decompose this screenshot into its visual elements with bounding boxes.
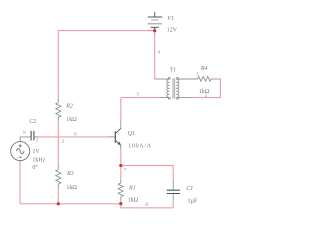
- svg-text:3: 3: [136, 92, 139, 98]
- svg-text:100A/A: 100A/A: [128, 143, 152, 149]
- svg-text:1kHz: 1kHz: [32, 157, 45, 163]
- resistor R3: [57, 165, 59, 169]
- wire bottom rail lower right part with jog: [121, 204, 173, 208]
- wire R1 bottom lead: [120, 197, 122, 201]
- svg-text:0°: 0°: [32, 164, 38, 171]
- svg-text:T1: T1: [170, 67, 176, 73]
- resistor R4: [198, 76, 212, 81]
- svg-text:2: 2: [36, 137, 39, 143]
- wire C1 bottom to lower rail: [172, 194, 174, 200]
- svg-text:4: 4: [157, 50, 160, 56]
- wire battery to transformer, net 4: [154, 31, 156, 79]
- junction battery node: [153, 29, 156, 32]
- resistor R1: [118, 183, 123, 197]
- wire left vertical divider string: [57, 30, 59, 204]
- svg-text:V1: V1: [167, 16, 174, 22]
- svg-text:Q1: Q1: [128, 131, 135, 137]
- wire left vertical from AC source to bottom rail: [19, 161, 21, 204]
- svg-text:1kΩ: 1kΩ: [128, 198, 139, 204]
- wire base net from C2 to Q1 base: [20, 137, 31, 142]
- svg-text:5: 5: [62, 139, 65, 145]
- svg-text:1µF: 1µF: [188, 198, 198, 204]
- wire net 3: transformer bottom-left to Q1 collector: [121, 97, 160, 99]
- junction R3 bottom: [57, 202, 60, 205]
- svg-text:2: 2: [205, 93, 208, 99]
- wire top horizontal net from R2 line to battery: [58, 30, 154, 32]
- svg-text:C2: C2: [29, 119, 36, 125]
- wire node 7 horizontal to C1: [121, 166, 173, 181]
- wire Q1 emitter to node 7: [120, 145, 122, 150]
- battery V1: [148, 12, 162, 31]
- svg-text:6: 6: [74, 132, 77, 138]
- capacitor C1: [167, 190, 180, 193]
- svg-text:1kΩ: 1kΩ: [66, 185, 77, 191]
- wire bottom rail left part: [20, 203, 121, 205]
- svg-text:1kΩ: 1kΩ: [66, 117, 77, 123]
- svg-text:R4: R4: [200, 65, 208, 72]
- resistor R2: [57, 99, 59, 103]
- svg-text:9: 9: [23, 130, 26, 136]
- svg-text:7: 7: [124, 167, 127, 173]
- transistor Q1: [115, 128, 121, 145]
- junction R1 bottom: [119, 202, 122, 205]
- wire R4 secondary loop: [178, 78, 197, 80]
- svg-text:8: 8: [145, 202, 148, 208]
- svg-text:R3: R3: [66, 171, 74, 177]
- transformer T1: [167, 77, 179, 99]
- svg-text:1: 1: [196, 72, 199, 78]
- svg-text:1V: 1V: [32, 149, 40, 155]
- AC source VS1: [11, 142, 30, 161]
- svg-text:R2: R2: [65, 103, 73, 109]
- svg-text:R1: R1: [128, 186, 136, 192]
- junction node 7: [119, 164, 122, 167]
- capacitor C2: [31, 131, 34, 141]
- wire node 7 to R1: [120, 166, 122, 180]
- svg-text:12V: 12V: [167, 28, 178, 34]
- svg-text:C1: C1: [186, 186, 193, 192]
